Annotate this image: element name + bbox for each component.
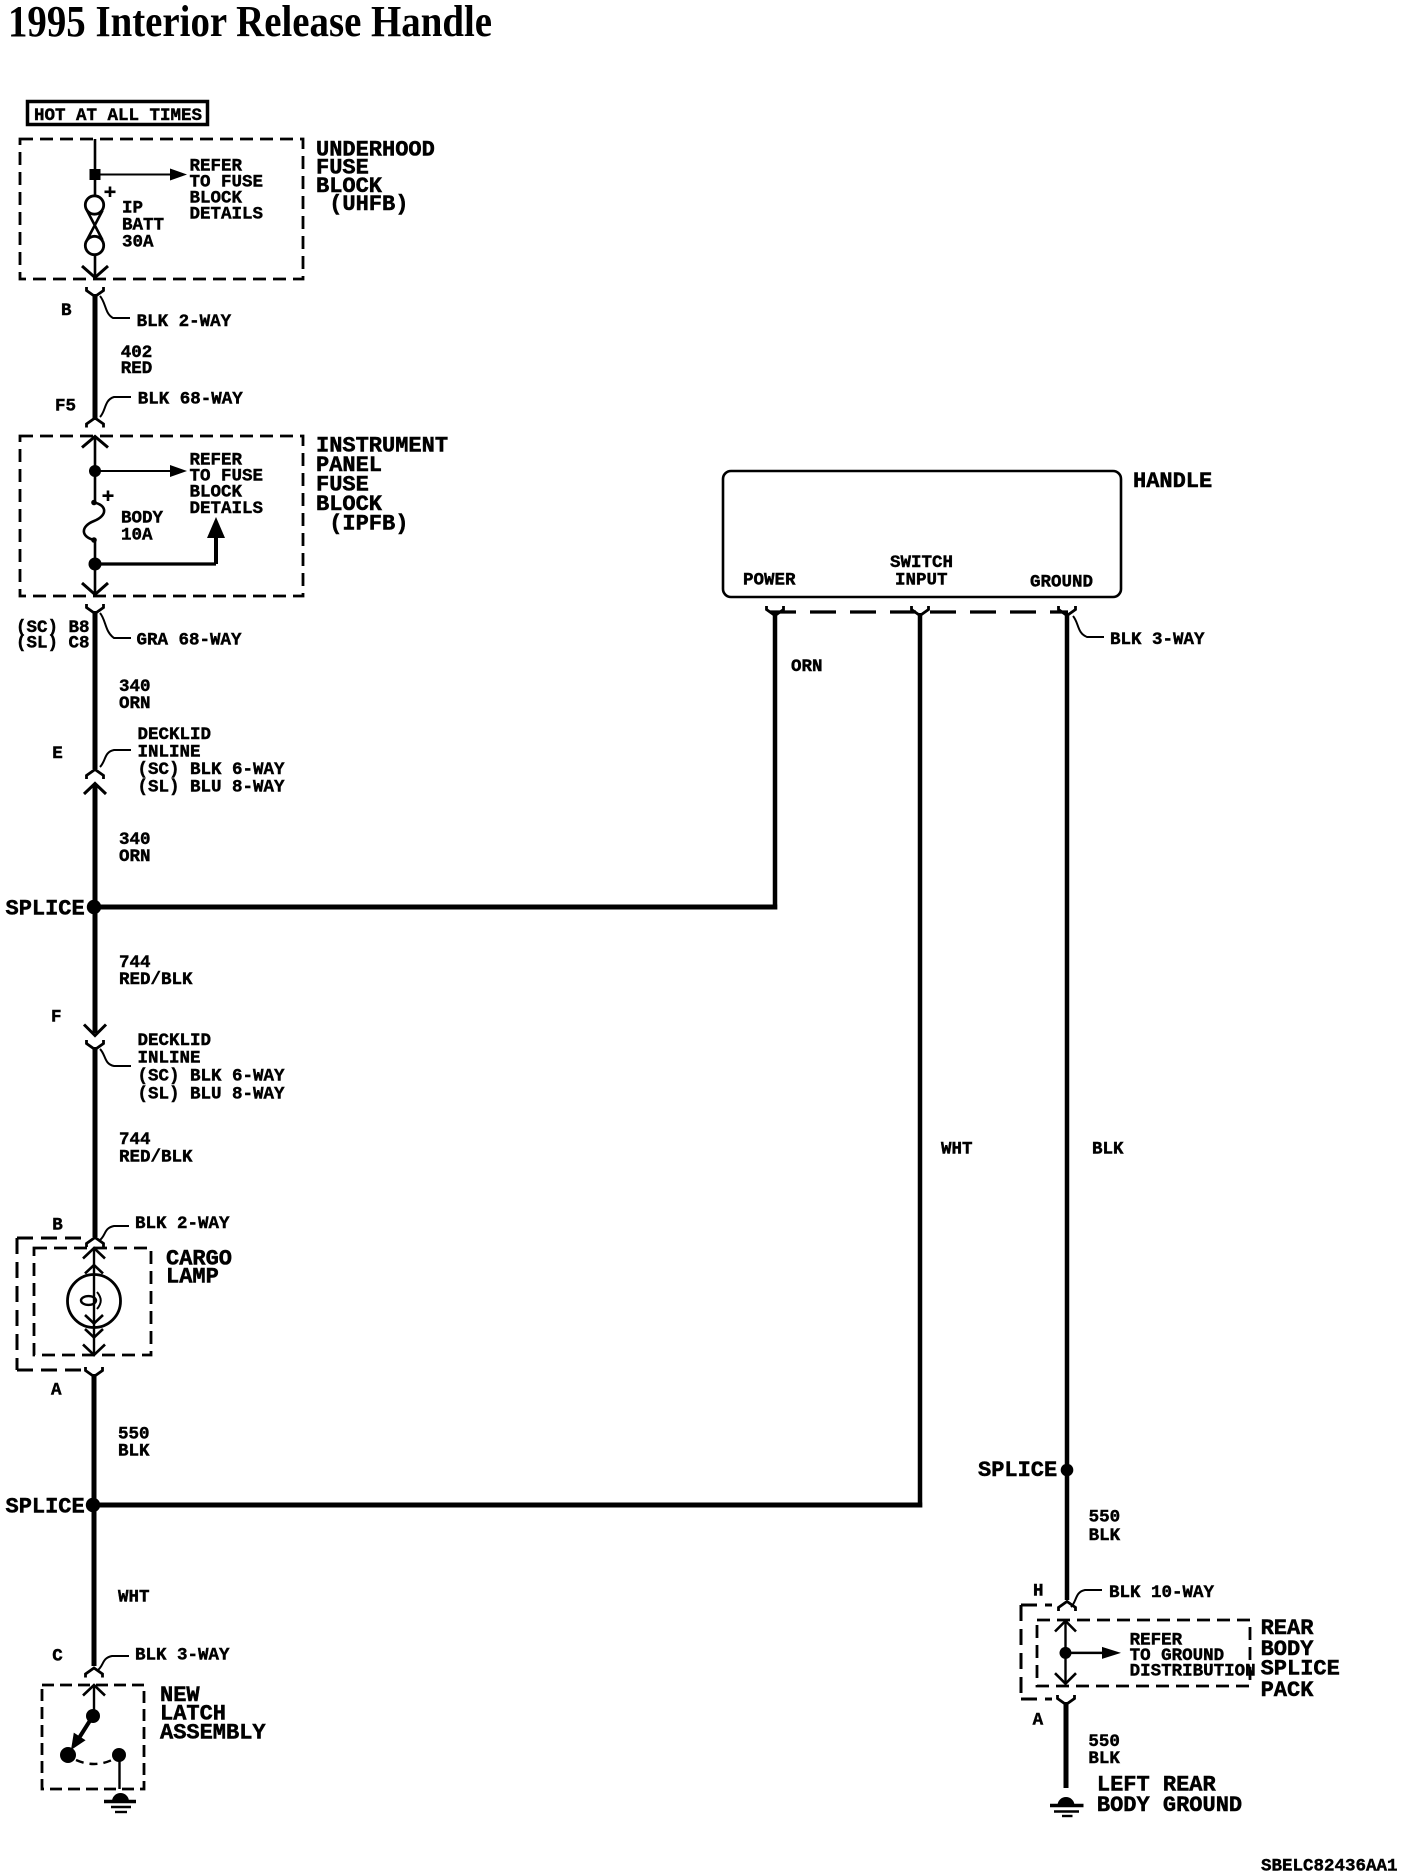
svg-text:RED: RED	[121, 359, 153, 379]
svg-text:BLK 3-WAY: BLK 3-WAY	[135, 1645, 230, 1665]
label CARGO LAMP	[166, 1246, 232, 1289]
svg-text:SPLICE: SPLICE	[6, 896, 85, 921]
connector flare H	[1059, 1602, 1076, 1612]
wire WHT latch feed	[92, 1505, 97, 1666]
svg-text:B: B	[61, 301, 72, 321]
rear body splice pack case bracket	[1021, 1605, 1052, 1699]
svg-text:BLK 68-WAY: BLK 68-WAY	[138, 389, 244, 409]
wire splice 2 to handle SWITCH INPUT	[93, 1503, 922, 1508]
svg-text:ORN: ORN	[119, 694, 151, 714]
pin label (SC) B8 / (SL) C8	[16, 618, 90, 654]
svg-text:BLK: BLK	[118, 1442, 150, 1462]
svg-text:WHT: WHT	[118, 1587, 150, 1607]
connector flare F5 bottom	[87, 418, 104, 428]
wire label 340 ORN upper	[119, 677, 151, 714]
svg-text:POWER: POWER	[743, 571, 796, 591]
wire label 550 BLK right lower	[1088, 1732, 1120, 1769]
wire 402 RED	[93, 294, 98, 420]
connector flare B top	[87, 287, 104, 297]
branch arrow up to DETAILS	[95, 517, 225, 564]
pointer arrow to fuse details (UHFB)	[95, 169, 187, 181]
connector flare POWER	[767, 606, 784, 616]
svg-text:INPUT: INPUT	[895, 571, 948, 591]
junction IPFB bottom	[89, 558, 102, 571]
note REFER TO FUSE BLOCK DETAILS (IPFB)	[190, 451, 264, 520]
leader DECKLID INLINE E	[100, 750, 131, 767]
svg-text:BLK 2-WAY: BLK 2-WAY	[135, 1214, 230, 1234]
svg-text:DISTRIBUTION: DISTRIBUTION	[1130, 1662, 1256, 1682]
svg-text:WHT: WHT	[941, 1140, 973, 1160]
splice pack internals	[1055, 1621, 1121, 1684]
value label IP BATT 30A	[122, 199, 164, 253]
new latch assembly box	[42, 1685, 144, 1789]
switch latch assembly	[60, 1685, 126, 1789]
svg-text:BLK: BLK	[1089, 1526, 1121, 1546]
wire label 550 BLK right upper	[1089, 1508, 1121, 1547]
wire 340 ORN upper	[93, 611, 98, 769]
svg-text:10A: 10A	[121, 526, 153, 546]
svg-text:B: B	[52, 1215, 63, 1235]
note DECKLID INLINE (SC) BLK 6-WAY (SL) BLU 8-WAY	[138, 725, 286, 798]
connector arrow E male	[84, 784, 106, 795]
svg-text:HOT AT ALL TIMES: HOT AT ALL TIMES	[34, 106, 202, 126]
svg-text:F5: F5	[55, 397, 76, 417]
wire fuse output	[94, 255, 97, 277]
wire BLK handle ground	[1065, 613, 1070, 1600]
label UNDERHOOD FUSE BLOCK (UHFB)	[316, 138, 435, 218]
fuse IP BATT 30A	[85, 196, 103, 255]
cargo lamp case bracket	[17, 1238, 88, 1370]
wire label 340 ORN lower	[119, 830, 151, 867]
svg-text:ASSEMBLY: ASSEMBLY	[160, 1720, 266, 1745]
pin arrow B (UHFB edge)	[82, 266, 108, 278]
junction splice 1	[87, 900, 101, 914]
wire WHT handle switch input	[918, 613, 923, 1508]
underhood fuse block UHFB box	[20, 139, 303, 279]
leader DECKLID INLINE F	[100, 1049, 131, 1066]
value label BODY 10A	[121, 509, 164, 546]
label NEW LATCH ASSEMBLY	[160, 1683, 266, 1746]
leader BLK 2-WAY	[100, 296, 130, 318]
svg-text:(SL) BLU 8-WAY: (SL) BLU 8-WAY	[138, 1085, 286, 1105]
wire UHFB feed	[94, 139, 97, 196]
wire 744 RED/BLK lower	[93, 1047, 98, 1237]
connector arrow F male	[84, 1025, 106, 1036]
svg-text:(UHFB): (UHFB)	[316, 192, 408, 217]
junction splice 2	[86, 1498, 100, 1512]
svg-text:BLK: BLK	[1092, 1140, 1124, 1160]
label REAR BODY SPLICE PACK	[1261, 1616, 1340, 1703]
svg-text:GRA 68-WAY: GRA 68-WAY	[137, 631, 243, 651]
svg-text:A: A	[1033, 1711, 1044, 1731]
handle box	[723, 471, 1121, 597]
wire label 550 BLK left	[118, 1425, 150, 1462]
instrument panel fuse block IPFB box	[20, 436, 303, 596]
svg-text:DETAILS: DETAILS	[190, 204, 264, 224]
leader GRA 68-WAY	[100, 613, 131, 638]
svg-text:BLK 2-WAY: BLK 2-WAY	[137, 312, 232, 332]
wire 550 BLK left	[92, 1374, 97, 1505]
pointer arrow to fuse details (IPFB)	[95, 465, 187, 477]
junction IPFB top	[89, 465, 101, 477]
cargo lamp box	[34, 1248, 151, 1355]
note REFER TO GROUND DISTRIBUTION	[1130, 1631, 1256, 1682]
note REFER TO FUSE BLOCK DETAILS (UHFB)	[190, 156, 264, 224]
svg-text:C: C	[52, 1646, 63, 1666]
svg-text:GROUND: GROUND	[1030, 572, 1093, 592]
connector flare A (cargo)	[86, 1367, 103, 1377]
svg-text:BODY GROUND: BODY GROUND	[1097, 1793, 1242, 1818]
lamp cargo	[68, 1248, 121, 1355]
svg-text:RED/BLK: RED/BLK	[119, 1148, 193, 1168]
leader BLK 3-WAY (latch)	[98, 1656, 129, 1670]
wire label 744 RED/BLK upper	[119, 953, 193, 990]
svg-text:ORN: ORN	[119, 847, 151, 867]
svg-text:F: F	[51, 1007, 62, 1027]
wire splice 1 to handle POWER	[94, 905, 777, 910]
note DECKLID INLINE F block	[138, 1031, 286, 1105]
leader BLK 10-WAY	[1071, 1590, 1102, 1607]
svg-text:(IPFB): (IPFB)	[316, 511, 408, 536]
label INSTRUMENT PANEL FUSE BLOCK (IPFB)	[316, 433, 448, 536]
svg-text:A: A	[51, 1380, 62, 1400]
svg-text:(SL) BLU 8-WAY: (SL) BLU 8-WAY	[138, 778, 286, 798]
svg-text:H: H	[1033, 1581, 1044, 1601]
wire 340 ORN lower	[93, 784, 98, 907]
pin arrow F5 (IPFB edge)	[82, 437, 108, 467]
svg-text:550: 550	[1089, 1508, 1121, 1528]
wire junction to breaker	[94, 471, 97, 501]
leader BLK 2-WAY (cargo)	[100, 1226, 129, 1240]
junction UHFB	[90, 169, 101, 180]
connector flare A (splice pack)	[1058, 1695, 1075, 1705]
svg-text:SBELC82436AA1: SBELC82436AA1	[1261, 1857, 1398, 1876]
svg-text:BLK 10-WAY: BLK 10-WAY	[1109, 1583, 1215, 1603]
svg-text:(SL) C8: (SL) C8	[16, 634, 90, 654]
handle connector interface	[770, 610, 1068, 613]
svg-text:PACK: PACK	[1261, 1678, 1315, 1703]
svg-text:ORN: ORN	[791, 657, 823, 677]
polarity + mark	[105, 187, 116, 198]
svg-text:E: E	[52, 744, 63, 764]
node HOT AT ALL TIMES	[28, 102, 208, 127]
wire 744 RED/BLK upper	[93, 907, 98, 1033]
svg-text:30A: 30A	[122, 233, 154, 253]
rear body splice pack box	[1037, 1620, 1250, 1686]
connector flare C	[86, 1668, 103, 1678]
pin label SWITCH INPUT	[890, 553, 953, 591]
connector flare E female	[87, 770, 104, 780]
leader BLK 3-WAY (handle)	[1073, 616, 1104, 637]
svg-text:LAMP: LAMP	[166, 1265, 219, 1290]
junction splice 3	[1061, 1464, 1074, 1477]
wire label 744 RED/BLK lower	[119, 1130, 193, 1168]
connector flare GROUND	[1059, 606, 1076, 616]
wire label 402 RED	[121, 343, 153, 379]
svg-text:SPLICE: SPLICE	[978, 1458, 1057, 1483]
leader BLK 68-WAY	[100, 397, 131, 417]
wire breaker to pin B8	[94, 540, 97, 593]
svg-text:RED/BLK: RED/BLK	[119, 970, 193, 990]
svg-text:BLK: BLK	[1088, 1749, 1120, 1769]
svg-text:INLINE: INLINE	[138, 1049, 201, 1069]
svg-text:1995 Interior Release Handle: 1995 Interior Release Handle	[8, 0, 492, 46]
svg-text:(SC) BLK 6-WAY: (SC) BLK 6-WAY	[138, 1067, 286, 1087]
wire 550 BLK right lower	[1064, 1702, 1069, 1788]
svg-text:BLK 3-WAY: BLK 3-WAY	[1110, 630, 1205, 650]
connector flare B8 top	[87, 604, 104, 614]
ground left rear body	[1050, 1797, 1084, 1816]
polarity + mark (IPFB)	[103, 491, 114, 502]
pin arrow B8 (IPFB edge)	[82, 583, 108, 595]
connector flare B (cargo)	[87, 1238, 104, 1248]
svg-text:DETAILS: DETAILS	[190, 499, 264, 519]
circuit breaker BODY 10A	[84, 500, 104, 543]
svg-text:SPLICE: SPLICE	[6, 1495, 85, 1520]
connector flare F female	[87, 1040, 104, 1050]
label LEFT REAR BODY GROUND	[1097, 1773, 1242, 1818]
connector flare SWITCH INPUT	[912, 606, 929, 616]
svg-text:HANDLE: HANDLE	[1133, 469, 1212, 494]
ground latch assembly	[104, 1793, 136, 1812]
wire ORN handle power	[773, 613, 778, 910]
